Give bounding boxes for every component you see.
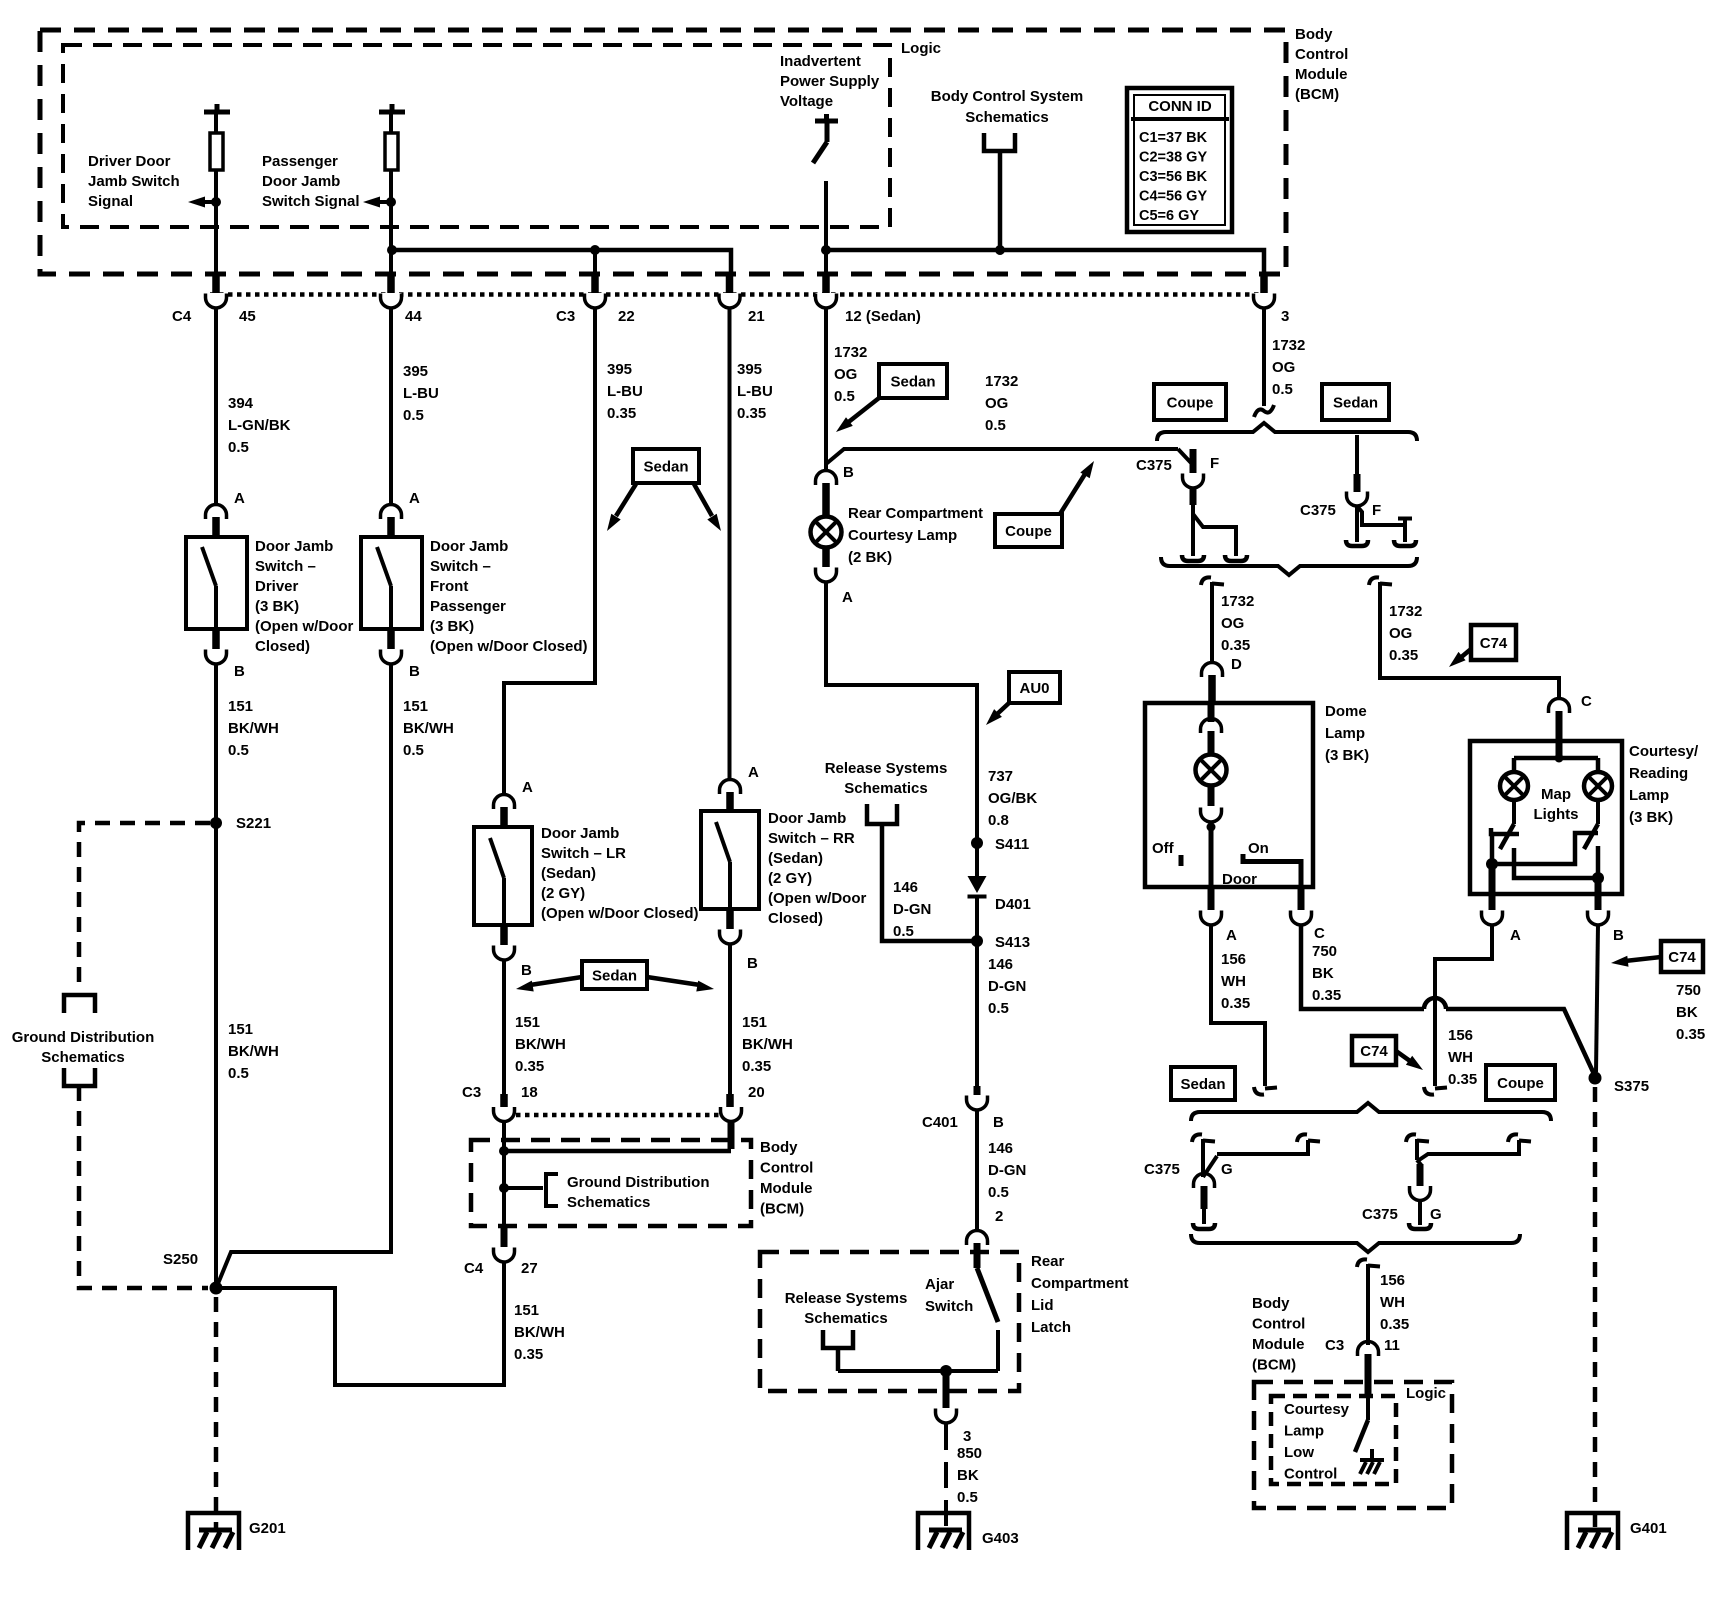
svg-text:0.35: 0.35 <box>607 405 636 422</box>
svg-text:Module: Module <box>1252 1336 1305 1353</box>
svg-text:BK/WH: BK/WH <box>742 1036 793 1053</box>
svg-text:Coupe: Coupe <box>1005 523 1052 540</box>
svg-text:0.5: 0.5 <box>228 439 249 456</box>
connector C375 G (Coupe) <box>1406 1134 1416 1142</box>
svg-text:BK: BK <box>1676 1004 1698 1021</box>
svg-text:OG: OG <box>985 395 1008 412</box>
svg-text:0.35: 0.35 <box>515 1058 544 1075</box>
svg-text:1732: 1732 <box>1389 603 1422 620</box>
terminal hook (Sedan option) <box>1254 1087 1264 1095</box>
connector A of driver door jamb switch <box>206 505 227 520</box>
wire: schematics stem to bus <box>998 151 1003 250</box>
svg-text:Logic: Logic <box>901 40 941 57</box>
svg-text:151: 151 <box>515 1014 540 1031</box>
wire pin 12 down to rear compartment courtesy lamp <box>824 308 828 470</box>
svg-text:A: A <box>842 589 853 606</box>
svg-text:Courtesy Lamp: Courtesy Lamp <box>848 527 957 544</box>
svg-text:395: 395 <box>403 363 428 380</box>
reference bracket under Body Control System Schematics <box>984 133 1015 151</box>
svg-text:0.5: 0.5 <box>228 742 249 759</box>
svg-text:395: 395 <box>737 361 762 378</box>
Sedan callout box (lower) <box>1171 1067 1235 1100</box>
dome lamp switch common dot and wiper <box>1207 823 1216 832</box>
svg-text:151: 151 <box>403 698 428 715</box>
wire pin 21 down to door jamb switch RR <box>728 308 732 781</box>
svg-text:C: C <box>1581 693 1592 710</box>
svg-text:Schematics: Schematics <box>844 780 927 797</box>
inner dashed box: BCM Logic block <box>63 45 890 227</box>
svg-text:B: B <box>409 663 420 680</box>
svg-text:Body: Body <box>1252 1295 1290 1312</box>
connector C401 pin B <box>974 1086 981 1095</box>
wire inside BCM from pin 20 to pin 18 wire <box>728 1122 735 1149</box>
svg-text:Lamp: Lamp <box>1325 725 1365 742</box>
reference bracket (top) ground distribution schematics <box>64 995 95 1013</box>
svg-text:Closed): Closed) <box>768 910 823 927</box>
connector C3 pin 11 at BCM <box>1358 1342 1379 1357</box>
svg-text:Courtesy: Courtesy <box>1284 1401 1350 1418</box>
connector A of RR door jamb switch <box>720 780 741 795</box>
branch wire from S413 to release systems schematics bracket <box>882 826 977 941</box>
svg-text:(Sedan): (Sedan) <box>768 850 823 867</box>
svg-text:BK/WH: BK/WH <box>515 1036 566 1053</box>
svg-text:146: 146 <box>988 956 1013 973</box>
svg-text:B: B <box>747 955 758 972</box>
connector A of LR door jamb switch <box>494 795 515 809</box>
door jamb switch - LR (component box) <box>474 827 532 925</box>
courtesy lamp internal feed tee <box>1556 741 1563 756</box>
wire dome lamp C 750 BK to S375 (with hop over 156 WH wire) <box>1301 925 1424 1009</box>
dome lamp On contact to pin C <box>1243 854 1301 887</box>
junction dot at bus / schematics stem <box>995 245 1005 255</box>
Coupe callout box (lower) <box>1486 1065 1555 1100</box>
svg-text:S221: S221 <box>236 815 271 832</box>
AU0 callout box with arrow <box>1009 672 1060 703</box>
svg-text:(Open w/Door: (Open w/Door <box>768 890 866 907</box>
svg-text:Lamp: Lamp <box>1284 1423 1324 1440</box>
svg-text:OG: OG <box>1272 359 1295 376</box>
svg-text:Coupe: Coupe <box>1167 395 1214 412</box>
wire D401 to S413 <box>975 896 979 941</box>
svg-text:0.5: 0.5 <box>228 1065 249 1082</box>
svg-text:BK/WH: BK/WH <box>403 720 454 737</box>
wire pin 45 down to door jamb switch driver <box>214 308 218 504</box>
wire pin 22 down, jog left, to door jamb switch LR <box>504 308 595 796</box>
svg-text:A: A <box>1226 927 1237 944</box>
svg-text:C4: C4 <box>464 1260 484 1277</box>
junction dot at bus / pin 22 tap <box>590 245 600 255</box>
svg-text:Low: Low <box>1284 1444 1314 1461</box>
svg-text:(BCM): (BCM) <box>1252 1357 1296 1374</box>
svg-text:(Open w/Door Closed): (Open w/Door Closed) <box>430 638 588 655</box>
svg-text:0.5: 0.5 <box>988 1000 1009 1017</box>
svg-text:(3 BK): (3 BK) <box>430 618 474 635</box>
svg-text:Power Supply: Power Supply <box>780 73 880 90</box>
connector A of rear compartment courtesy lamp <box>822 548 830 567</box>
svg-text:Closed): Closed) <box>255 638 310 655</box>
outer dashed box: Body Control Module (BCM) <box>40 30 1286 274</box>
over-brace (Sedan/Coupe to C375 G) <box>1191 1103 1551 1121</box>
signal source symbol (passenger door jamb switch signal) with fuse element <box>379 110 405 115</box>
bus wire right segment (inadvertent power to pins 12 and 3) <box>826 250 1264 276</box>
svg-text:Door Jamb: Door Jamb <box>255 538 333 555</box>
svg-text:3: 3 <box>963 1428 971 1445</box>
svg-text:C1=37 BK: C1=37 BK <box>1139 130 1208 146</box>
wire pin 44 down to front passenger door jamb switch <box>389 308 393 504</box>
CONN ID table <box>1127 88 1232 232</box>
svg-text:27: 27 <box>521 1260 538 1277</box>
splice S221 <box>210 817 222 829</box>
reference bracket: ground distribution schematics (in BCM) <box>504 1186 543 1190</box>
svg-text:Ground Distribution: Ground Distribution <box>567 1174 709 1191</box>
branch wire 1732 OG to C375 (diagonal + horizontal) <box>826 449 1178 464</box>
svg-text:C74: C74 <box>1668 949 1696 966</box>
svg-text:B: B <box>843 464 854 481</box>
ground G403 <box>918 1513 969 1550</box>
svg-text:0.35: 0.35 <box>737 405 766 422</box>
dome lamp Off contact tick <box>1179 855 1184 866</box>
dotted BCM connector face line (bottom C3/C4) <box>498 1113 736 1118</box>
hook terminal and wire 156 WH to BCM C3 pin 11 <box>1357 1259 1367 1267</box>
svg-text:1732: 1732 <box>834 344 867 361</box>
svg-text:L-BU: L-BU <box>607 383 643 400</box>
junction dot on driver signal wire <box>211 197 221 207</box>
svg-text:Door: Door <box>1222 871 1257 888</box>
wire 395 L-BU from BCM logic down to pin 44 <box>389 170 393 276</box>
svg-text:OG: OG <box>834 366 857 383</box>
wire dome lamp A to Sedan option terminal <box>1211 925 1265 1086</box>
wire latch pin 3 down to ground G403 <box>944 1424 948 1528</box>
svg-text:Switch: Switch <box>925 1298 973 1315</box>
splice S375 <box>1589 1072 1602 1085</box>
svg-text:Door Jamb: Door Jamb <box>541 825 619 842</box>
dotted BCM connector face line (top) <box>210 292 1270 297</box>
svg-text:Door Jamb: Door Jamb <box>768 810 846 827</box>
map light bulb left <box>1500 772 1528 800</box>
svg-text:Body: Body <box>760 1139 798 1156</box>
svg-text:0.35: 0.35 <box>1676 1026 1705 1043</box>
wire from rear lamp A to S411 (with jog) <box>826 581 977 838</box>
junction dot at ground distribution tap <box>499 1183 509 1193</box>
svg-text:S413: S413 <box>995 934 1030 951</box>
svg-text:Lights: Lights <box>1534 806 1579 823</box>
svg-text:G401: G401 <box>1630 1520 1667 1537</box>
svg-text:D-GN: D-GN <box>988 1162 1026 1179</box>
wire from driver switch B down through S221 to S250 <box>214 664 218 1288</box>
door jamb switch - front passenger (component box) <box>361 537 422 629</box>
svg-text:S375: S375 <box>1614 1078 1649 1095</box>
Sedan callout box (C375 options) <box>1322 384 1389 420</box>
switch blade inside passenger door jamb switch <box>377 547 391 586</box>
svg-text:Sedan: Sedan <box>890 374 935 391</box>
svg-text:Switch – LR: Switch – LR <box>541 845 626 862</box>
connector B of LR door jamb switch <box>500 925 508 945</box>
svg-text:Release Systems: Release Systems <box>785 1290 908 1307</box>
wire from LR switch B down to BCM pin 18 <box>502 960 506 1094</box>
svg-text:22: 22 <box>618 308 635 325</box>
svg-text:0.35: 0.35 <box>1380 1316 1409 1333</box>
svg-text:Sedan: Sedan <box>592 968 637 985</box>
wire pin 18 through BCM box down to pin 27 <box>502 1122 506 1244</box>
svg-text:Control: Control <box>760 1160 813 1177</box>
svg-text:0.35: 0.35 <box>1448 1071 1477 1088</box>
svg-text:D-GN: D-GN <box>988 978 1026 995</box>
svg-text:0.35: 0.35 <box>1389 647 1418 664</box>
svg-text:Schematics: Schematics <box>804 1310 887 1327</box>
junction dot on passenger signal wire <box>386 197 396 207</box>
svg-text:BK/WH: BK/WH <box>514 1324 565 1341</box>
svg-text:G201: G201 <box>249 1520 286 1537</box>
C74 callout box with arrow (upper) <box>1471 625 1516 660</box>
svg-text:B: B <box>521 962 532 979</box>
svg-text:(Open w/Door Closed): (Open w/Door Closed) <box>541 905 699 922</box>
dome lamp internal input connector <box>1208 703 1215 722</box>
svg-text:1732: 1732 <box>1272 337 1305 354</box>
mini ground inside courtesy lamp low control <box>1370 1449 1374 1460</box>
svg-text:0.8: 0.8 <box>988 812 1009 829</box>
connector C375 F (Sedan) <box>1355 435 1359 474</box>
ajar switch blade <box>977 1268 998 1322</box>
svg-text:C5=6 GY: C5=6 GY <box>1139 208 1199 224</box>
connector pin 27 at BCM C4 <box>501 1226 508 1247</box>
svg-text:D-GN: D-GN <box>893 901 931 918</box>
dome lamp bulb <box>1196 755 1227 786</box>
under-brace (C375 options joined) <box>1161 557 1417 575</box>
svg-text:1732: 1732 <box>985 373 1018 390</box>
connector pin 3 at BCM (male stub + female cup) <box>1260 275 1268 293</box>
svg-text:Door Jamb: Door Jamb <box>262 173 340 190</box>
under-brace (C375 G joined) <box>1191 1234 1520 1252</box>
door jamb switch - driver (component box) <box>186 537 247 629</box>
dashed box: rear compartment lid latch <box>760 1252 1019 1391</box>
dome lamp internal lower connector <box>1208 786 1215 806</box>
svg-text:Module: Module <box>1295 66 1348 83</box>
svg-text:BK: BK <box>1312 965 1334 982</box>
svg-text:Schematics: Schematics <box>965 109 1048 126</box>
svg-text:WH: WH <box>1448 1049 1473 1066</box>
svg-text:Sedan: Sedan <box>1180 1076 1225 1093</box>
svg-text:(Open w/Door: (Open w/Door <box>255 618 353 635</box>
svg-text:Signal: Signal <box>88 193 133 210</box>
C74 callout box with arrow (right) <box>1661 941 1703 972</box>
svg-text:C4: C4 <box>172 308 192 325</box>
wire courtesy lamp A down-left and to C74 terminal <box>1435 925 1492 1086</box>
svg-text:11: 11 <box>1384 1337 1400 1354</box>
svg-text:Latch: Latch <box>1031 1319 1071 1336</box>
svg-text:Rear Compartment: Rear Compartment <box>848 505 983 522</box>
svg-text:(2 GY): (2 GY) <box>768 870 812 887</box>
svg-text:A: A <box>522 779 533 796</box>
svg-text:Driver Door: Driver Door <box>88 153 171 170</box>
rear compartment courtesy lamp <box>811 517 842 548</box>
svg-text:C: C <box>1314 925 1325 942</box>
svg-text:C4=56 GY: C4=56 GY <box>1139 189 1207 205</box>
Coupe callout box (C375 options) <box>1154 384 1226 420</box>
svg-text:Control: Control <box>1284 1466 1337 1483</box>
svg-text:A: A <box>1510 927 1521 944</box>
svg-text:Control: Control <box>1252 1316 1305 1333</box>
switch blade inside LR door jamb switch <box>490 838 504 878</box>
wire from passenger switch B down and left to S250 <box>217 664 391 1286</box>
svg-text:44: 44 <box>405 308 422 325</box>
svg-text:C401: C401 <box>922 1114 958 1131</box>
svg-text:Door Jamb: Door Jamb <box>430 538 508 555</box>
wire from pin 27 down and left to S250 <box>222 1262 504 1385</box>
wire down from bus to pin 12 <box>824 250 828 276</box>
Sedan callout box with arrow to pin 12 wire <box>879 364 947 398</box>
svg-text:BK: BK <box>957 1467 979 1484</box>
reference bracket: release systems schematics (upper) <box>867 804 897 824</box>
svg-text:394: 394 <box>228 395 254 412</box>
courtesy/reading lamp (component box) <box>1470 741 1622 894</box>
junction dot at bus / inadvertent power wire <box>821 245 831 255</box>
wire S413 down to C401 <box>975 941 979 1086</box>
signal source symbol (driver door jamb switch signal) with fuse element <box>204 110 230 115</box>
svg-text:OG: OG <box>1389 625 1412 642</box>
svg-text:0.5: 0.5 <box>403 407 424 424</box>
svg-text:850: 850 <box>957 1445 982 1462</box>
dome lamp (component box) <box>1145 703 1313 887</box>
svg-text:F: F <box>1210 455 1219 472</box>
svg-text:0.35: 0.35 <box>1312 987 1341 1004</box>
svg-text:C74: C74 <box>1360 1043 1388 1060</box>
svg-text:Inadvertent: Inadvertent <box>780 53 861 70</box>
wire tap down to pin 22 <box>593 250 597 276</box>
svg-text:S411: S411 <box>995 836 1029 853</box>
svg-text:G: G <box>1221 1161 1233 1178</box>
svg-text:0.35: 0.35 <box>1221 637 1250 654</box>
terminal hook (C74 coupe option) <box>1424 1087 1434 1095</box>
svg-text:151: 151 <box>228 1021 253 1038</box>
svg-text:Sedan: Sedan <box>1333 395 1378 412</box>
svg-text:18: 18 <box>521 1084 538 1101</box>
connector A of passenger door jamb switch <box>381 505 402 520</box>
switch blade inside RR door jamb switch <box>716 822 730 862</box>
svg-text:Ground Distribution: Ground Distribution <box>12 1029 154 1046</box>
Coupe callout box with arrow to 1732 OG branch <box>995 514 1062 547</box>
svg-text:B: B <box>1613 927 1624 944</box>
svg-text:0.5: 0.5 <box>985 417 1006 434</box>
svg-text:0.5: 0.5 <box>957 1489 978 1506</box>
courtesy lamp low control driver switch <box>1366 1396 1370 1420</box>
wire courtesy lamp B down to S375 <box>1596 925 1598 1072</box>
svg-text:(BCM): (BCM) <box>1295 86 1339 103</box>
svg-text:151: 151 <box>742 1014 767 1031</box>
svg-text:3: 3 <box>1281 308 1289 325</box>
svg-text:Switch Signal: Switch Signal <box>262 193 360 210</box>
svg-text:S250: S250 <box>163 1251 198 1268</box>
arrow: passenger door jamb switch signal <box>377 200 391 204</box>
connector C375 F (Coupe) <box>1178 449 1193 465</box>
dashed box: Body Control Module (BCM) lower <box>471 1140 751 1226</box>
svg-text:G403: G403 <box>982 1530 1019 1547</box>
junction dot at wire 44 / bus <box>387 245 397 255</box>
wire from inadvertent power switch down to bus <box>824 181 828 250</box>
connector A of courtesy/reading lamp <box>1489 864 1496 910</box>
svg-text:D: D <box>1231 656 1242 673</box>
dashed box: courtesy lamp low control <box>1271 1396 1396 1484</box>
wire from RR switch B down to BCM pin 20 <box>728 944 732 1094</box>
svg-text:OG: OG <box>1221 615 1244 632</box>
connector D of dome lamp <box>1202 663 1223 678</box>
svg-text:C375: C375 <box>1144 1161 1180 1178</box>
svg-text:Ajar: Ajar <box>925 1276 954 1293</box>
svg-text:L-BU: L-BU <box>403 385 439 402</box>
svg-text:0.5: 0.5 <box>403 742 424 759</box>
junction dot on BCM internal wire <box>499 1146 509 1156</box>
connector pin 21 at BCM (male stub + female cup) <box>726 275 734 293</box>
svg-text:151: 151 <box>228 698 253 715</box>
switch blade inside driver door jamb switch <box>202 547 216 586</box>
hook terminal and wire 1732 OG 0.35 to courtesy/reading lamp <box>1369 577 1379 585</box>
Sedan callout box with two arrows (to pins 22 and 21 wires) <box>633 449 699 483</box>
svg-text:Logic: Logic <box>1406 1385 1446 1402</box>
connector B of RR door jamb switch <box>726 909 734 929</box>
svg-text:BK/WH: BK/WH <box>228 720 279 737</box>
svg-text:L-BU: L-BU <box>737 383 773 400</box>
svg-text:395: 395 <box>607 361 632 378</box>
connector pin 20 at BCM C3 <box>726 1094 734 1107</box>
svg-text:B: B <box>993 1114 1004 1131</box>
svg-text:156: 156 <box>1380 1272 1405 1289</box>
svg-text:Dome: Dome <box>1325 703 1367 720</box>
svg-text:750: 750 <box>1676 982 1701 999</box>
bus wire left segment (pin 44 feed to pins 22 and 21) <box>392 250 731 276</box>
svg-text:Body Control System: Body Control System <box>931 88 1084 105</box>
svg-text:Front: Front <box>430 578 468 595</box>
splice S250 <box>210 1282 223 1295</box>
connector A of dome lamp <box>1208 887 1215 910</box>
svg-text:(3 BK): (3 BK) <box>1325 747 1369 764</box>
dashed reference wire from S221 to ground distribution schematics <box>79 823 210 991</box>
svg-text:C3=56 BK: C3=56 BK <box>1139 169 1208 185</box>
splice S413 <box>971 935 983 947</box>
svg-text:146: 146 <box>893 879 918 896</box>
svg-text:0.35: 0.35 <box>1221 995 1250 1012</box>
svg-text:Rear: Rear <box>1031 1253 1065 1270</box>
connector pin 12 at BCM (male stub + female cup) <box>822 275 830 293</box>
map light switch blades <box>1512 800 1516 824</box>
svg-text:Switch –: Switch – <box>430 558 491 575</box>
connector pin 45 at BCM (male stub + female cup) <box>212 275 220 293</box>
connector C of courtesy/reading lamp <box>1549 699 1570 714</box>
svg-text:C3: C3 <box>556 308 575 325</box>
connector C375 G (Sedan) <box>1192 1134 1202 1142</box>
svg-text:Courtesy/: Courtesy/ <box>1629 743 1699 760</box>
svg-text:1732: 1732 <box>1221 593 1254 610</box>
dashed wire S375 to ground G401 <box>1593 1087 1598 1528</box>
svg-text:CONN ID: CONN ID <box>1148 98 1212 115</box>
connector pin 22 at BCM (male stub + female cup) <box>591 275 599 293</box>
connector pin 18 at BCM C3 <box>500 1094 508 1107</box>
svg-text:Coupe: Coupe <box>1497 1075 1544 1092</box>
svg-text:Voltage: Voltage <box>780 93 833 110</box>
ground G201 <box>188 1513 239 1550</box>
svg-text:0.35: 0.35 <box>514 1346 543 1363</box>
connector pin 2 of rear compartment lid latch <box>975 1110 979 1230</box>
svg-text:Passenger: Passenger <box>262 153 338 170</box>
svg-text:F: F <box>1372 502 1381 519</box>
svg-text:Release Systems: Release Systems <box>825 760 948 777</box>
svg-text:2: 2 <box>995 1208 1003 1225</box>
svg-text:Reading: Reading <box>1629 765 1688 782</box>
svg-text:Sedan: Sedan <box>643 459 688 476</box>
svg-text:WH: WH <box>1380 1294 1405 1311</box>
svg-text:AU0: AU0 <box>1019 680 1049 697</box>
svg-text:Module: Module <box>760 1180 813 1197</box>
svg-text:12 (Sedan): 12 (Sedan) <box>845 308 921 325</box>
Sedan callout box with double arrows (between LR and RR wires) <box>582 961 647 989</box>
